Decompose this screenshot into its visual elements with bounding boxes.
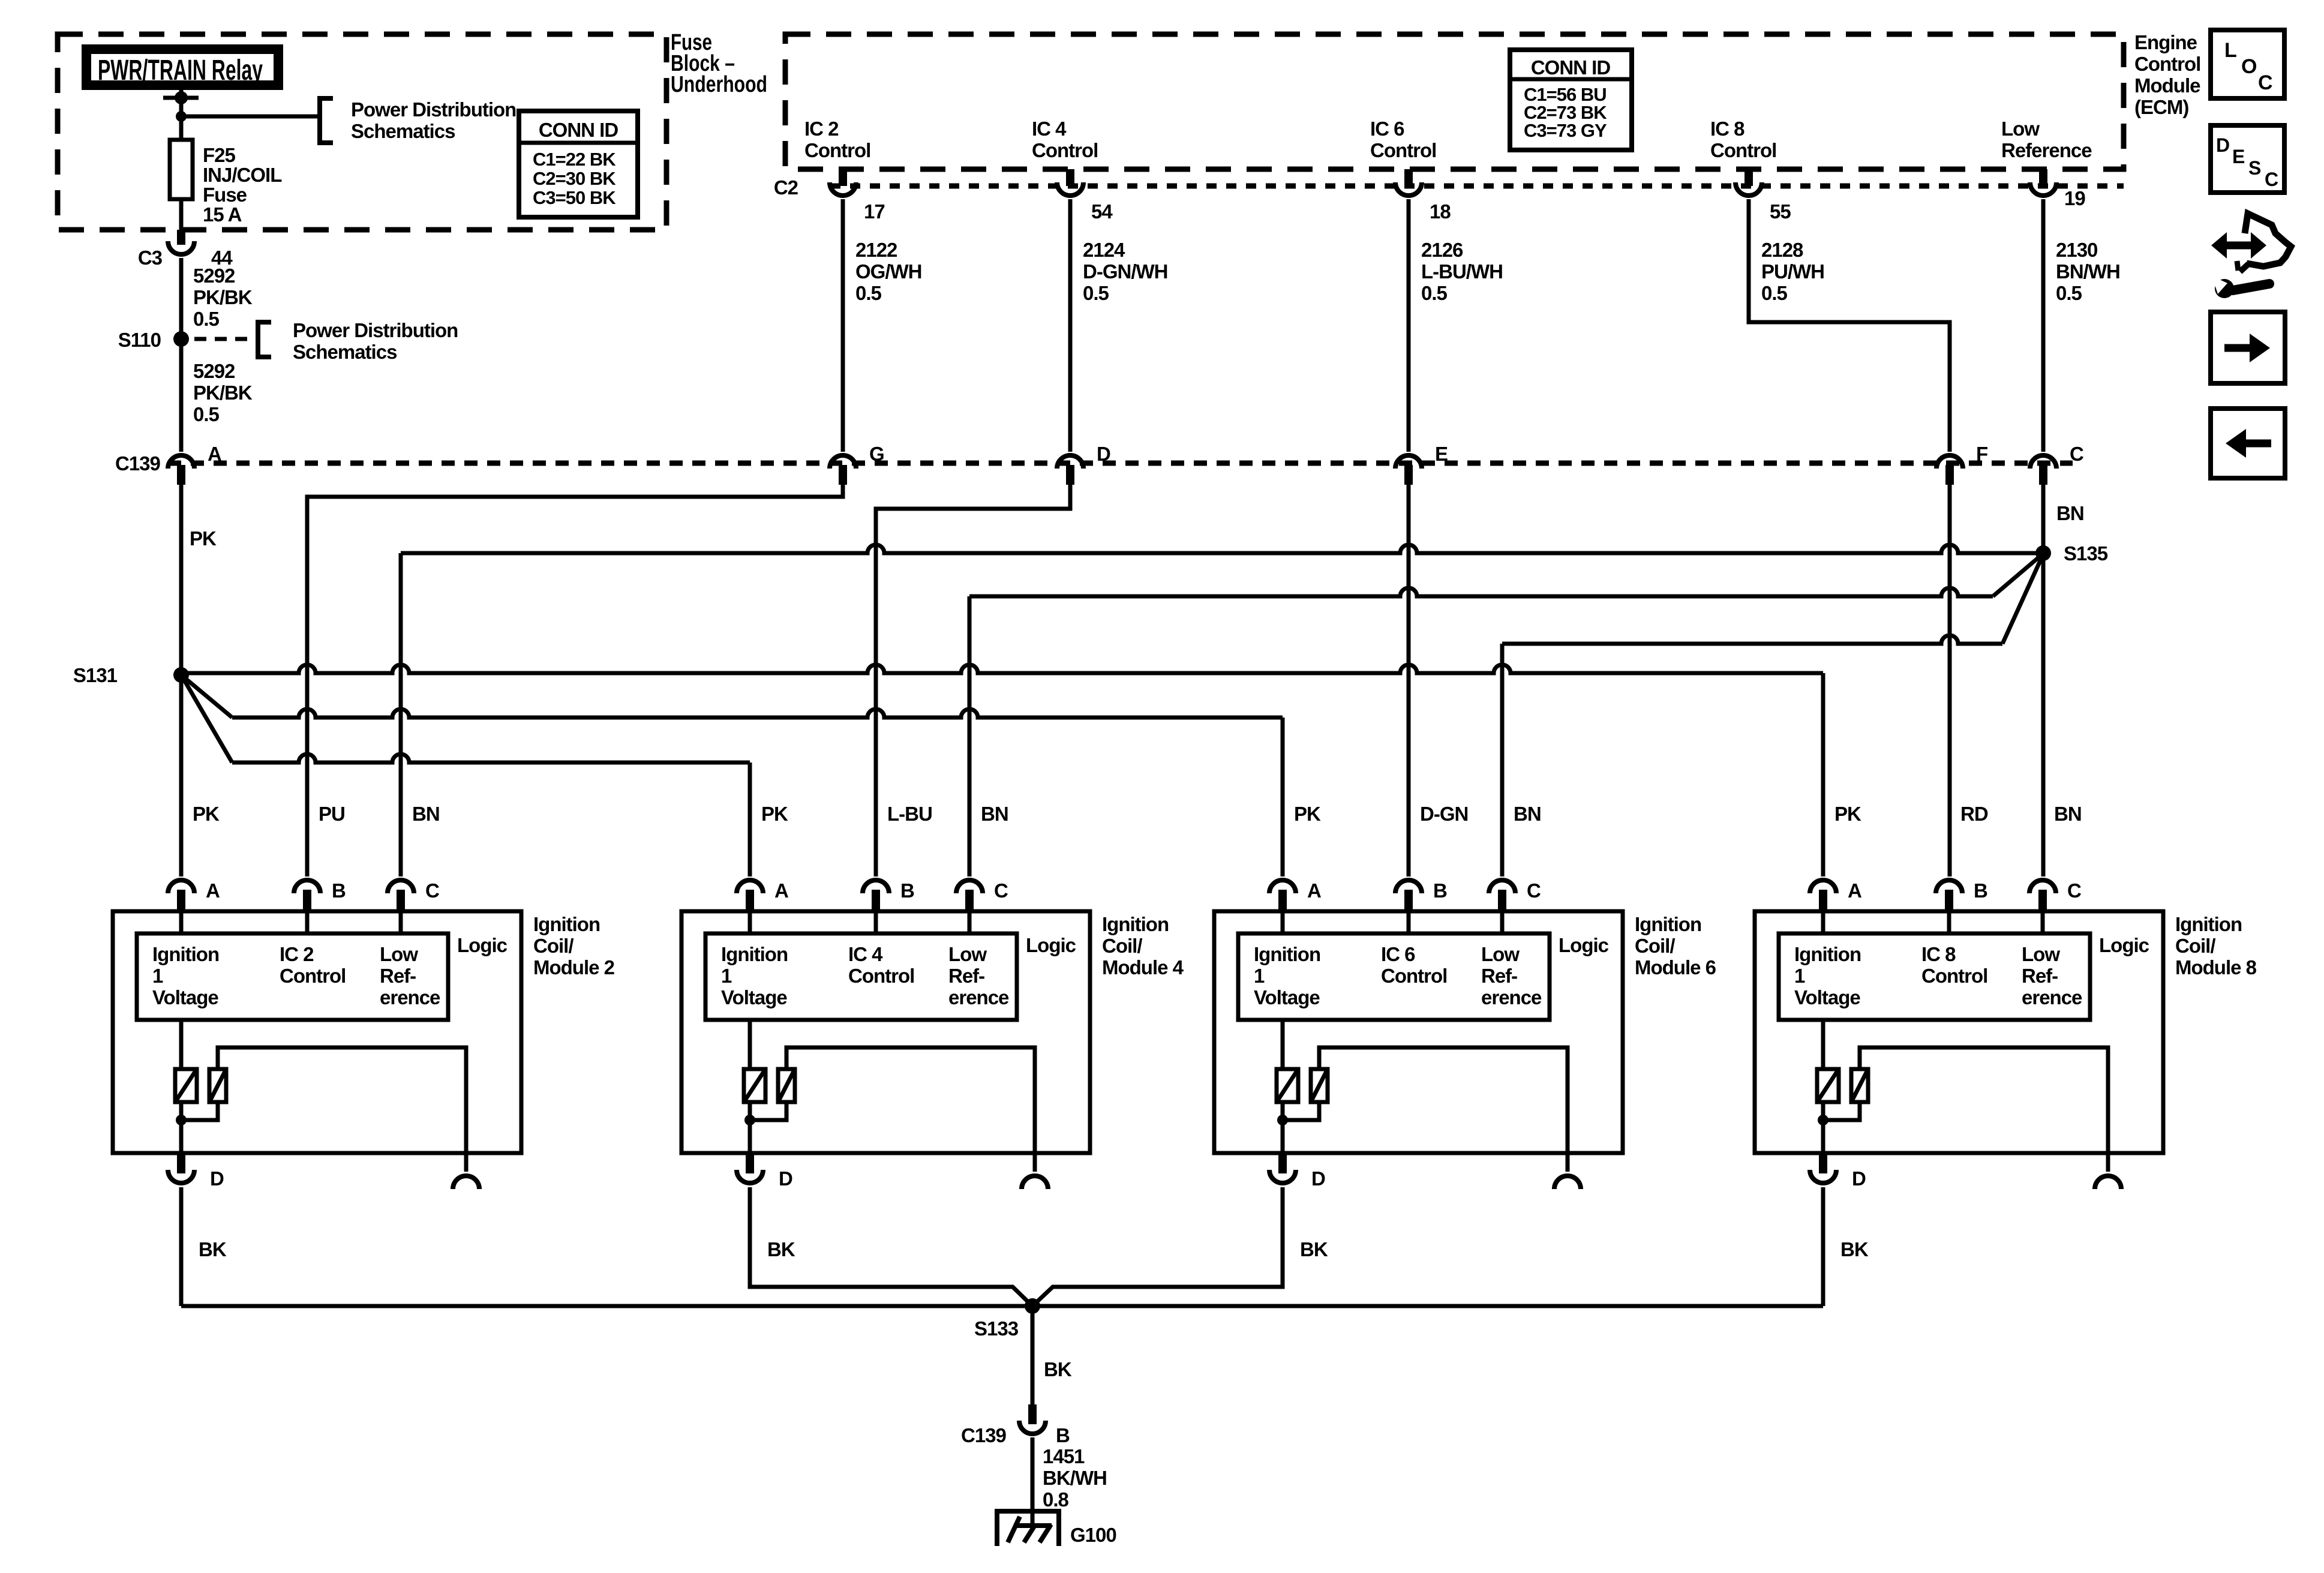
svg-text:L-BU/WH: L-BU/WH [1421, 260, 1503, 283]
wire PK S131 to module2 pin A [179, 675, 184, 876]
svg-text:erence: erence [948, 986, 1009, 1008]
svg-text:Ignition: Ignition [152, 943, 219, 965]
svg-text:Logic: Logic [2099, 934, 2149, 956]
connector pin C module 4 [956, 880, 983, 893]
wire BN module2 low ref to S135 [401, 545, 2043, 553]
junction dot [175, 91, 188, 104]
svg-text:BK: BK [1044, 1358, 1072, 1380]
svg-text:IC 6: IC 6 [1370, 118, 1404, 140]
svg-text:Power Distribution: Power Distribution [351, 98, 516, 121]
module 6 outer box [1214, 911, 1623, 1153]
svg-text:D: D [210, 1167, 224, 1190]
coil common junction module 8 [1821, 1102, 1825, 1153]
svg-text:S131: S131 [73, 664, 118, 686]
svg-text:B: B [1056, 1424, 1070, 1446]
relay K: PWR/TRAIN Relay [86, 49, 278, 85]
svg-text:D-GN: D-GN [1420, 803, 1468, 825]
svg-text:2122: 2122 [855, 239, 897, 261]
svg-text:Voltage: Voltage [1794, 986, 1860, 1008]
connector C139 pin A [168, 455, 194, 469]
svg-text:Control: Control [848, 965, 914, 987]
wire secondary to spark output module 4 [786, 1047, 1035, 1172]
svg-text:2130: 2130 [2056, 239, 2097, 261]
ground G100 [997, 1511, 1059, 1546]
wire IC2 control from pin 17 to C139 G [841, 199, 845, 452]
fuse F25 INJ/COIL 15A [179, 140, 184, 230]
junction bar below relay [163, 96, 199, 100]
connector C139 pin F [1936, 455, 1963, 469]
wire BK S133 to C139 B [1031, 1306, 1035, 1404]
svg-text:B: B [900, 879, 914, 902]
svg-text:C: C [1527, 879, 1541, 902]
wire 5292 PK/BK lower [179, 346, 184, 452]
svg-text:erence: erence [380, 986, 440, 1008]
svg-text:O: O [2241, 55, 2257, 78]
wire 5292 PK/BK upper [179, 258, 184, 332]
wire PK S131 to module6 pin A [181, 675, 232, 718]
svg-text:C139: C139 [961, 1424, 1007, 1446]
svg-text:19: 19 [2064, 187, 2085, 209]
node to power distribution [176, 111, 187, 122]
svg-text:Coil/: Coil/ [1635, 935, 1675, 957]
connector pin D module 8 [1819, 1153, 1827, 1173]
svg-text:D-GN/WH: D-GN/WH [1083, 260, 1167, 283]
connector C139 pin B [1028, 1404, 1037, 1424]
svg-text:2128: 2128 [1761, 239, 1803, 261]
connector C139 dashed line [168, 461, 2073, 466]
connector pin A module 6 [1269, 880, 1296, 893]
svg-text:Fuse: Fuse [203, 184, 247, 206]
svg-text:Ref-: Ref- [948, 965, 984, 987]
svg-text:C: C [2070, 443, 2083, 465]
connector pin B module 4 [863, 880, 889, 893]
connector pin D module 4 [746, 1153, 754, 1173]
svg-text:Low: Low [1481, 943, 1520, 965]
coil primary winding module 8 [1821, 1020, 1825, 1069]
module 2 outer box [113, 911, 521, 1153]
svg-text:Voltage: Voltage [1254, 986, 1320, 1008]
wire BK module2 D to S133 [179, 1187, 184, 1306]
svg-text:Module 8: Module 8 [2175, 956, 2257, 978]
svg-text:F25: F25 [203, 144, 236, 166]
dashed link S110 to power distribution [194, 337, 257, 341]
fuse block underhood dashed box [58, 34, 666, 230]
svg-text:0.5: 0.5 [855, 282, 882, 304]
svg-text:PU/WH: PU/WH [1761, 260, 1824, 283]
svg-text:S135: S135 [2064, 542, 2108, 565]
svg-text:PK: PK [761, 803, 788, 825]
svg-text:CONN ID: CONN ID [539, 119, 618, 141]
wire IC6 from C139 E to module6 pin B [1407, 485, 1411, 876]
wire secondary to spark output module 8 [1860, 1047, 2108, 1172]
wire RD from C139 F to module8 pin B [1948, 485, 1952, 876]
connector C139 pin E [1395, 455, 1422, 469]
svg-text:Control: Control [280, 965, 346, 987]
svg-text:Power Distribution: Power Distribution [293, 319, 458, 341]
splice S110 [173, 331, 189, 347]
svg-text:BN/WH: BN/WH [2056, 260, 2120, 283]
svg-text:C: C [994, 879, 1008, 902]
svg-text:BN: BN [412, 803, 440, 825]
connector pin B module 6 [1395, 880, 1422, 893]
module 8 inner logic box [1779, 933, 2090, 1020]
svg-text:CONN ID: CONN ID [1531, 56, 1611, 79]
svg-text:C: C [425, 879, 439, 902]
svg-text:54: 54 [1091, 200, 1113, 223]
wire secondary to spark output module 6 [1319, 1047, 1568, 1172]
svg-text:2126: 2126 [1421, 239, 1463, 261]
module 4 inner logic box [705, 933, 1017, 1020]
svg-text:D: D [1097, 443, 1110, 465]
svg-text:C1=22 BK: C1=22 BK [533, 149, 616, 170]
svg-text:Ref-: Ref- [2022, 965, 2058, 987]
wires pins to inner box module 4 [748, 911, 752, 933]
module 4 outer box [681, 911, 1090, 1153]
svg-text:Low: Low [380, 943, 418, 965]
bracket power distribution 1 [320, 98, 333, 143]
svg-text:0.5: 0.5 [193, 308, 220, 330]
svg-text:5292: 5292 [193, 360, 235, 382]
svg-text:B: B [1974, 879, 1987, 902]
wire BK module8 D to S133 [1821, 1187, 1825, 1306]
svg-text:Coil/: Coil/ [2175, 935, 2215, 957]
svg-text:Ignition: Ignition [721, 943, 788, 965]
svg-text:BK: BK [767, 1238, 795, 1260]
svg-text:1451: 1451 [1043, 1445, 1085, 1467]
wire IC2 jog from C139 G to module2 pin B [307, 485, 843, 876]
wires pins to inner box module 8 [1821, 911, 1825, 933]
svg-text:Schematics: Schematics [351, 120, 455, 142]
wire PK S131 to module4 pin A [181, 675, 232, 763]
svg-text:D: D [779, 1167, 792, 1190]
wire module6 pin C up [1500, 644, 1505, 876]
connector C139 pin G [830, 455, 856, 469]
svg-text:Module 4: Module 4 [1102, 956, 1184, 978]
icon DESC box [2211, 125, 2284, 193]
svg-text:B: B [1433, 879, 1447, 902]
svg-text:Module 2: Module 2 [533, 956, 615, 978]
splice S133 [1025, 1298, 1040, 1314]
svg-text:0.5: 0.5 [1761, 282, 1788, 304]
svg-text:0.5: 0.5 [1083, 282, 1109, 304]
svg-text:PK: PK [193, 803, 220, 825]
svg-text:Logic: Logic [1559, 934, 1609, 956]
svg-text:1: 1 [1794, 965, 1805, 987]
svg-text:1: 1 [152, 965, 163, 987]
connector pin D module 6 [1278, 1153, 1287, 1173]
svg-text:0.5: 0.5 [2056, 282, 2082, 304]
connector pin A module 4 [737, 880, 763, 893]
wires pins to inner box module 6 [1281, 911, 1285, 933]
connector pin C module 6 [1489, 880, 1515, 893]
svg-text:A: A [206, 879, 220, 902]
wire BN from C139 C to S135 and module8 pin C [2041, 485, 2046, 876]
icon wrench and arrows [2223, 242, 2254, 250]
svg-text:IC 4: IC 4 [1032, 118, 1067, 140]
svg-text:RD: RD [1960, 803, 1988, 825]
coil secondary winding module 2 [209, 1069, 226, 1102]
svg-text:D: D [2216, 134, 2229, 156]
svg-text:Control: Control [1381, 965, 1447, 987]
svg-text:Logic: Logic [1026, 934, 1076, 956]
svg-text:PU: PU [319, 803, 345, 825]
icon forward arrow box [2211, 312, 2285, 383]
connector C2 pin 17 [839, 169, 847, 186]
svg-text:IC 4: IC 4 [848, 943, 883, 965]
wire PK S131 to module8 pin A [181, 665, 1823, 673]
svg-text:PWR/TRAIN Relay: PWR/TRAIN Relay [98, 55, 263, 86]
svg-text:IC 6: IC 6 [1381, 943, 1415, 965]
bracket power distribution 2 [258, 322, 271, 357]
svg-text:PK: PK [190, 527, 217, 550]
svg-text:1: 1 [1254, 965, 1265, 987]
wire IC8 control from pin 55 jog to C139 F [1749, 199, 1950, 452]
coil secondary winding module 8 [1851, 1069, 1868, 1102]
svg-text:E: E [1435, 443, 1448, 465]
svg-text:0.5: 0.5 [193, 403, 220, 425]
coil primary winding module 4 [748, 1020, 752, 1069]
svg-text:C3=50 BK: C3=50 BK [533, 187, 616, 208]
svg-text:S133: S133 [974, 1317, 1019, 1340]
svg-text:BK: BK [1840, 1238, 1869, 1260]
coil secondary winding module 4 [778, 1069, 795, 1102]
icon back arrow box [2211, 409, 2285, 478]
wires pins to inner box module 2 [179, 911, 184, 933]
svg-text:Control: Control [1370, 139, 1436, 161]
wire relay output [179, 90, 184, 140]
coil common junction module 4 [748, 1102, 752, 1153]
coil primary winding module 6 [1281, 1020, 1285, 1069]
svg-text:Control: Control [1921, 965, 1987, 987]
connector pin C module 2 [388, 880, 414, 893]
wire branch to power distribution schematics [181, 115, 320, 119]
svg-text:BK: BK [199, 1238, 227, 1260]
svg-text:55: 55 [1770, 200, 1791, 223]
engine control module ECM dashed box [785, 34, 2124, 169]
wire 1451 BK/WH 0.8 [1031, 1437, 1035, 1509]
CONN ID table fuse block [519, 111, 638, 217]
wire BN module4 low ref to S135 [969, 588, 1993, 596]
svg-text:C3: C3 [138, 247, 163, 269]
svg-text:Control: Control [2134, 53, 2200, 75]
svg-text:Underhood: Underhood [671, 72, 767, 97]
svg-text:BN: BN [981, 803, 1008, 825]
wire module2 pin C up to S135 line [399, 553, 403, 876]
svg-text:Logic: Logic [457, 934, 508, 956]
svg-text:Ref-: Ref- [1481, 965, 1517, 987]
svg-text:C2: C2 [774, 176, 798, 199]
svg-text:A: A [774, 879, 788, 902]
connector pin A module 8 [1810, 880, 1836, 893]
coil common junction module 2 [179, 1102, 184, 1153]
svg-text:Module 6: Module 6 [1635, 956, 1716, 978]
svg-text:D: D [1311, 1167, 1325, 1190]
svg-text:0.8: 0.8 [1043, 1488, 1069, 1511]
svg-text:17: 17 [864, 200, 885, 223]
svg-text:(ECM): (ECM) [2134, 96, 2188, 118]
svg-text:Ignition: Ignition [1254, 943, 1320, 965]
module 6 inner logic box [1238, 933, 1550, 1020]
svg-text:IC 2: IC 2 [804, 118, 839, 140]
connector C139 pin D [1057, 455, 1083, 469]
svg-text:BN: BN [2054, 803, 2082, 825]
svg-text:G100: G100 [1070, 1524, 1116, 1546]
svg-text:Low: Low [2022, 943, 2060, 965]
svg-text:D: D [1852, 1167, 1866, 1190]
svg-text:IC 8: IC 8 [1710, 118, 1744, 140]
svg-text:Coil/: Coil/ [533, 935, 574, 957]
connector C139 pin C [2030, 455, 2056, 469]
connector C2 pin 55 [1744, 169, 1753, 186]
svg-text:INJ/COIL: INJ/COIL [203, 164, 282, 186]
svg-text:Ref-: Ref- [380, 965, 416, 987]
svg-text:Control: Control [1032, 139, 1098, 161]
svg-text:L: L [2224, 39, 2236, 62]
svg-text:L-BU: L-BU [887, 803, 932, 825]
wire BN module6 low ref to S135 [1502, 635, 2002, 644]
svg-text:A: A [208, 443, 221, 465]
svg-text:18: 18 [1430, 200, 1451, 223]
svg-text:E: E [2232, 146, 2245, 167]
svg-text:Low: Low [2001, 118, 2040, 140]
svg-text:S: S [2248, 157, 2261, 179]
svg-text:Voltage: Voltage [721, 986, 787, 1008]
svg-text:Ignition: Ignition [1102, 913, 1169, 935]
svg-text:A: A [1307, 879, 1321, 902]
svg-text:BK/WH: BK/WH [1043, 1467, 1107, 1489]
module 8 outer box [1755, 911, 2163, 1153]
wire BK module6 D to S133 [1032, 1187, 1283, 1306]
wire IC4 jog from C139 D to module4 pin B [876, 485, 1070, 876]
svg-text:Schematics: Schematics [293, 341, 397, 363]
svg-text:IC 8: IC 8 [1921, 943, 1956, 965]
svg-text:BN: BN [2056, 502, 2084, 524]
svg-text:C2=30 BK: C2=30 BK [533, 168, 616, 189]
wire IC6 control from pin 18 to C139 E [1407, 199, 1411, 452]
svg-text:PK: PK [1834, 803, 1861, 825]
svg-text:15 A: 15 A [203, 203, 242, 226]
svg-text:C: C [2067, 879, 2081, 902]
CONN ID table ECM [1510, 50, 1632, 150]
wire BK main line through S133 [181, 1304, 1823, 1308]
connector pin D module 2 [177, 1153, 185, 1173]
svg-text:PK/BK: PK/BK [193, 382, 253, 404]
icon LOC box [2211, 30, 2284, 98]
svg-text:Coil/: Coil/ [1102, 935, 1142, 957]
spark output connector module 4 [1022, 1176, 1048, 1189]
svg-text:C: C [2258, 71, 2272, 94]
svg-text:erence: erence [1481, 986, 1542, 1008]
coil secondary winding module 6 [1311, 1069, 1328, 1102]
svg-text:Control: Control [1710, 139, 1776, 161]
svg-text:Ignition: Ignition [1794, 943, 1861, 965]
svg-text:BK: BK [1300, 1238, 1328, 1260]
svg-text:IC 2: IC 2 [280, 943, 314, 965]
svg-text:OG/WH: OG/WH [855, 260, 921, 283]
wire PK from C139 A to S131 [179, 485, 184, 675]
svg-text:S110: S110 [118, 329, 161, 351]
coil common junction module 6 [1281, 1102, 1285, 1153]
svg-text:PK/BK: PK/BK [193, 286, 253, 308]
connector C2 pin 54 [1066, 169, 1074, 186]
wire low reference from pin 19 to C139 C [2041, 199, 2046, 452]
spark output connector module 6 [1554, 1176, 1581, 1189]
svg-text:erence: erence [2022, 986, 2082, 1008]
svg-text:Reference: Reference [2001, 139, 2092, 161]
wire secondary to spark output module 2 [218, 1047, 466, 1172]
svg-text:PK: PK [1294, 803, 1321, 825]
svg-text:F: F [1976, 443, 1987, 465]
svg-text:5292: 5292 [193, 265, 235, 287]
wire module4 pin C up [968, 596, 972, 876]
connector C2 dotted line [830, 184, 2124, 189]
coil primary winding module 2 [179, 1020, 184, 1069]
svg-text:C: C [2265, 169, 2278, 190]
svg-text:Module: Module [2134, 74, 2200, 97]
wire IC4 control from pin 54 to C139 D [1068, 199, 1073, 452]
svg-text:0.5: 0.5 [1421, 282, 1448, 304]
spark output connector module 8 [2095, 1176, 2121, 1189]
svg-text:C3=73 GY: C3=73 GY [1524, 120, 1607, 141]
svg-text:Engine: Engine [2134, 31, 2197, 53]
svg-text:G: G [869, 443, 884, 465]
svg-text:B: B [332, 879, 346, 902]
spark output connector module 2 [453, 1176, 479, 1189]
svg-text:1: 1 [721, 965, 732, 987]
svg-text:Ignition: Ignition [533, 913, 600, 935]
svg-text:Control: Control [804, 139, 870, 161]
svg-text:C139: C139 [115, 452, 161, 475]
wire BK module4 D to S133 [750, 1187, 1032, 1306]
connector C2 pin 18 [1404, 169, 1413, 186]
connector pin A module 2 [168, 880, 194, 893]
connector C3 pin 44 [177, 230, 185, 245]
connector pin C module 8 [2029, 880, 2056, 893]
module 2 inner logic box [137, 933, 448, 1020]
connector C2 pin 19 [2039, 169, 2047, 186]
connector pin B module 2 [294, 880, 320, 893]
splice S131 [173, 667, 189, 683]
splice S135 [2035, 545, 2051, 561]
svg-text:A: A [1848, 879, 1861, 902]
svg-text:BN: BN [1514, 803, 1541, 825]
svg-text:2124: 2124 [1083, 239, 1125, 261]
connector pin B module 8 [1936, 880, 1962, 893]
svg-text:Ignition: Ignition [1635, 913, 1701, 935]
svg-text:Voltage: Voltage [152, 986, 218, 1008]
svg-text:Ignition: Ignition [2175, 913, 2242, 935]
svg-text:Low: Low [948, 943, 987, 965]
